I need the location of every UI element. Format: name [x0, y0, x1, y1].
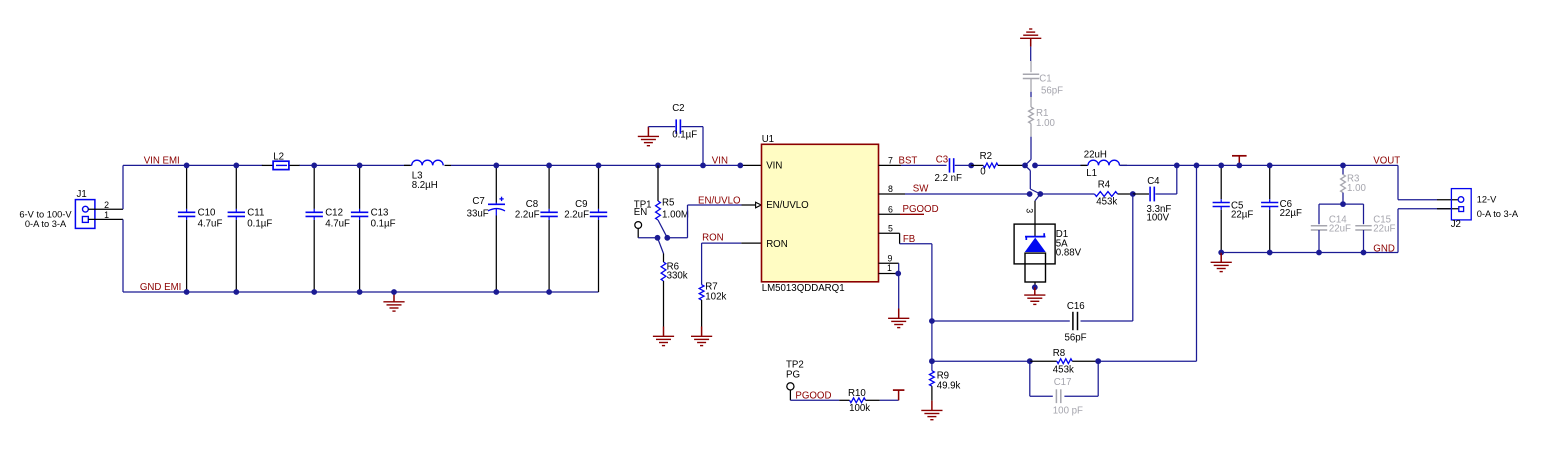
U1 pin 5 number: [888, 224, 893, 234]
U1 pin name EN/UVLO: [766, 200, 809, 211]
wire RON: [702, 243, 762, 285]
svg-text:J2: J2: [1451, 219, 1461, 230]
U1 pin 6 number: [888, 204, 893, 214]
capacitor C12: [306, 165, 351, 292]
wire TP2 to R10: [790, 399, 849, 401]
wire SW: [879, 193, 1030, 195]
junction dot R4/C4: [1130, 191, 1136, 197]
svg-text:1.00M: 1.00M: [662, 209, 689, 220]
svg-text:L2: L2: [273, 151, 284, 162]
svg-text:C16: C16: [1067, 301, 1085, 312]
net label VOUT: [1373, 155, 1400, 166]
wire BST-SW jog: [1025, 165, 1040, 194]
svg-text:VOUT: VOUT: [1373, 155, 1400, 166]
svg-text:2.2 nF: 2.2 nF: [935, 173, 963, 184]
net label BST: [899, 155, 918, 166]
svg-text:SW: SW: [913, 184, 929, 195]
junction dot C4/VOUT: [1174, 163, 1180, 169]
junction dots C13: [357, 163, 363, 295]
junction dots C11: [233, 163, 239, 295]
svg-text:U1: U1: [762, 134, 774, 145]
svg-text:1: 1: [104, 210, 109, 220]
svg-text:5: 5: [888, 224, 893, 234]
junction dot R8/VOUT rail: [1194, 163, 1200, 169]
net label PGOOD TP2: [795, 391, 831, 402]
svg-text:6-V to 100-V: 6-V to 100-V: [19, 209, 72, 219]
svg-text:EN/UVLO: EN/UVLO: [766, 200, 809, 211]
junction dots C14 C15: [1316, 250, 1366, 256]
svg-text:102k: 102k: [705, 291, 726, 302]
U1 pin 1 number: [887, 263, 892, 273]
svg-text:4.7uF: 4.7uF: [198, 219, 223, 230]
node R8 right dot: [1095, 358, 1101, 364]
svg-text:6: 6: [888, 204, 893, 214]
svg-text:453k: 453k: [1053, 365, 1074, 376]
junction dots C10: [184, 163, 190, 295]
resistor R4: [1095, 179, 1133, 207]
op-amp U1 LM5013QDDARQ1: [762, 134, 879, 294]
inductor L1: [1081, 150, 1128, 179]
junction dot FB/R8: [929, 358, 935, 364]
svg-text:49.9k: 49.9k: [937, 381, 961, 392]
power stub VOUT rail: [1232, 156, 1247, 169]
wire FB: [879, 233, 932, 370]
capacitor C13: [351, 165, 396, 292]
svg-text:7: 7: [888, 155, 893, 165]
svg-text:LM5013QDDARQ1: LM5013QDDARQ1: [762, 283, 845, 294]
svg-text:R5: R5: [662, 198, 674, 209]
wire SW to R4: [1040, 193, 1094, 195]
ground R9: [921, 401, 942, 420]
svg-text:C13: C13: [371, 208, 389, 219]
svg-text:GND: GND: [1373, 243, 1395, 254]
wire D1 to ground: [1032, 282, 1038, 290]
junction dot R5 top: [655, 163, 661, 169]
svg-text:C3: C3: [936, 155, 948, 166]
node EN dots: [655, 235, 671, 241]
svg-text:9: 9: [887, 254, 892, 264]
capacitor C8: [515, 165, 558, 292]
svg-text:FB: FB: [903, 234, 915, 245]
svg-text:100 pF: 100 pF: [1053, 406, 1083, 417]
net label VIN: [712, 155, 728, 166]
U1 pin name RON: [766, 239, 788, 250]
capacitor C4: [1133, 165, 1177, 223]
svg-text:EN/UVLO: EN/UVLO: [698, 195, 741, 206]
svg-text:C1: C1: [1039, 73, 1051, 84]
wire output gnd rail: [1221, 209, 1451, 253]
svg-text:12-V: 12-V: [1477, 195, 1497, 205]
ground U1 pins: [888, 309, 909, 328]
svg-text:0.88V: 0.88V: [1056, 247, 1082, 258]
wire FB to R8: [932, 360, 1030, 362]
svg-text:BST: BST: [899, 155, 918, 166]
wire VIN_EMI rail: [123, 164, 263, 166]
svg-text:R2: R2: [980, 151, 992, 162]
capacitor C5: [1213, 165, 1254, 252]
resistor R3 DNP: [1341, 165, 1367, 204]
svg-text:VIN: VIN: [766, 161, 782, 172]
ground C2: [638, 127, 659, 146]
connector J2: [1451, 189, 1519, 230]
svg-text:56pF: 56pF: [1041, 86, 1063, 97]
capacitor C15 DNP: [1355, 204, 1395, 252]
svg-text:L1: L1: [1086, 168, 1097, 179]
wire J1 pin2 to VIN_EMI rail: [88, 165, 123, 209]
D1 pin 3 number: [1025, 208, 1035, 213]
ground input rail: [383, 289, 404, 311]
junction dot FB/C16: [929, 318, 935, 324]
junction dots C12: [311, 163, 317, 295]
svg-text:PGOOD: PGOOD: [903, 204, 939, 215]
wire VOUT to J2: [1398, 165, 1458, 199]
node R8 left dot: [1027, 358, 1033, 364]
wire GND_EMI rail: [123, 291, 599, 293]
capacitor C6: [1261, 165, 1302, 252]
junction dot C3/R2: [968, 163, 974, 169]
svg-text:0.1µF: 0.1µF: [672, 130, 697, 141]
svg-text:C7: C7: [472, 196, 484, 207]
capacitor C9: [564, 165, 607, 292]
diode D1: [1014, 224, 1082, 282]
svg-text:1.00: 1.00: [1347, 183, 1366, 194]
ground flipped top: [1020, 29, 1041, 61]
connector J1: [19, 189, 95, 229]
junction dots C6: [1267, 163, 1273, 256]
svg-text:56pF: 56pF: [1065, 332, 1087, 343]
ground R7: [691, 327, 712, 346]
testpoint TP1: [634, 200, 658, 238]
svg-text:2: 2: [104, 200, 109, 210]
net label SW: [913, 184, 929, 195]
net label EN/UVLO: [698, 195, 741, 206]
svg-text:22uF: 22uF: [1373, 223, 1395, 234]
junction dots C8: [546, 163, 552, 295]
svg-text:8.2µH: 8.2µH: [412, 180, 438, 191]
capacitor C2: [648, 103, 703, 166]
svg-text:R4: R4: [1098, 179, 1111, 190]
net label VIN_EMI: [144, 155, 180, 166]
svg-text:C10: C10: [198, 208, 216, 219]
resistor R2: [971, 151, 1025, 178]
ground R6: [653, 327, 674, 346]
svg-text:J1: J1: [77, 189, 87, 200]
wire GND to J2 stub: [1437, 208, 1459, 210]
node SW dots: [1027, 191, 1044, 197]
capacitor C17 DNP: [1030, 361, 1098, 416]
junction dot VIN rail: [737, 163, 743, 169]
J1 pin 1 number: [104, 210, 109, 220]
svg-text:100V: 100V: [1147, 213, 1170, 224]
capacitor C3: [935, 155, 972, 185]
wire after L2: [300, 164, 412, 166]
svg-text:PG: PG: [786, 370, 800, 381]
svg-text:22µF: 22µF: [1280, 208, 1302, 219]
junction dots R3: [1340, 163, 1346, 208]
resistor R10: [848, 388, 899, 414]
resistor R9: [930, 370, 961, 400]
svg-text:C11: C11: [247, 208, 264, 219]
junction dot C2/VIN: [700, 163, 706, 169]
net label GND_EMI: [140, 282, 181, 293]
capacitor C14 DNP: [1311, 204, 1351, 252]
svg-text:3: 3: [1025, 208, 1035, 213]
capacitor C1 DNP: [1023, 61, 1063, 97]
svg-text:0: 0: [980, 167, 986, 178]
net label FB: [903, 234, 915, 245]
svg-text:EN: EN: [634, 207, 647, 218]
U1 pin 7 number: [888, 155, 893, 165]
svg-text:33uF: 33uF: [467, 208, 489, 219]
junction dots C5: [1218, 163, 1224, 256]
svg-text:22uH: 22uH: [1084, 150, 1107, 161]
wire EN/UVLO: [667, 202, 761, 238]
svg-text:330k: 330k: [667, 271, 688, 282]
svg-text:453k: 453k: [1096, 197, 1117, 208]
svg-text:0.1µF: 0.1µF: [371, 219, 396, 230]
net label GND: [1373, 243, 1395, 254]
inductor L3: [404, 160, 451, 191]
wire PGOOD stub: [879, 213, 925, 215]
svg-text:22µF: 22µF: [1231, 209, 1253, 220]
capacitor C7 electrolytic: [467, 165, 505, 292]
resistor R7: [699, 281, 726, 326]
svg-text:R8: R8: [1053, 348, 1065, 359]
ground D1: [1024, 287, 1045, 304]
junction dots C7: [493, 163, 499, 295]
resistor R5: [656, 165, 689, 237]
svg-text:0-A to 3-A: 0-A to 3-A: [1477, 209, 1519, 219]
svg-text:R1: R1: [1036, 108, 1048, 119]
svg-text:C4: C4: [1147, 176, 1160, 187]
net label PGOOD: [903, 204, 939, 215]
svg-text:8: 8: [888, 184, 893, 194]
wire C14/C15 top: [1319, 203, 1364, 205]
ground C5: [1211, 253, 1232, 272]
capacitor C16: [932, 194, 1133, 343]
svg-text:22uF: 22uF: [1329, 223, 1351, 234]
U1 pin 9 number: [887, 254, 892, 264]
wire R1 to BST node: [1025, 137, 1031, 166]
U1 pin name VIN: [766, 161, 782, 172]
net label RON: [702, 233, 724, 244]
wire L3 to VIN node: [451, 164, 762, 166]
wire R8 to VOUT: [1098, 165, 1196, 361]
svg-text:C17: C17: [1054, 377, 1072, 388]
svg-text:RON: RON: [702, 233, 724, 244]
svg-text:2.2uF: 2.2uF: [564, 209, 589, 220]
svg-text:1: 1: [887, 263, 892, 273]
wire BST node to L1: [1035, 164, 1088, 166]
wire J1 pin1 to GND_EMI rail: [88, 219, 123, 292]
junction dots C9: [596, 163, 602, 169]
svg-text:0.1µF: 0.1µF: [247, 219, 272, 230]
svg-text:C2: C2: [672, 103, 684, 114]
svg-text:VIN EMI: VIN EMI: [144, 155, 180, 166]
wire SW to D1: [1035, 194, 1040, 237]
svg-text:0-A to 3-A: 0-A to 3-A: [25, 219, 67, 229]
wire U1 pins 9-1: [879, 263, 902, 308]
capacitor C11: [228, 165, 273, 292]
svg-text:2.2uF: 2.2uF: [515, 209, 540, 220]
wire BST: [879, 164, 947, 166]
testpoint TP2: [786, 359, 804, 400]
capacitor C10: [178, 165, 223, 292]
resistor R6: [658, 238, 688, 327]
ferrite bead L2: [262, 151, 300, 169]
svg-text:RON: RON: [766, 239, 788, 250]
node BST dots: [1022, 163, 1038, 169]
svg-text:C12: C12: [325, 208, 343, 219]
svg-text:R10: R10: [848, 388, 866, 399]
wire L1 to VOUT: [1120, 164, 1399, 166]
svg-text:VIN: VIN: [712, 155, 728, 166]
U1 pin 8 number: [888, 184, 893, 194]
resistor R8: [1030, 348, 1098, 376]
resistor R1 DNP: [1029, 97, 1056, 137]
svg-text:4.7uF: 4.7uF: [325, 219, 350, 230]
svg-text:1.00: 1.00: [1036, 118, 1055, 129]
power stub R10: [893, 390, 905, 400]
J1 pin 2 number: [104, 200, 109, 210]
svg-text:100k: 100k: [849, 403, 870, 414]
